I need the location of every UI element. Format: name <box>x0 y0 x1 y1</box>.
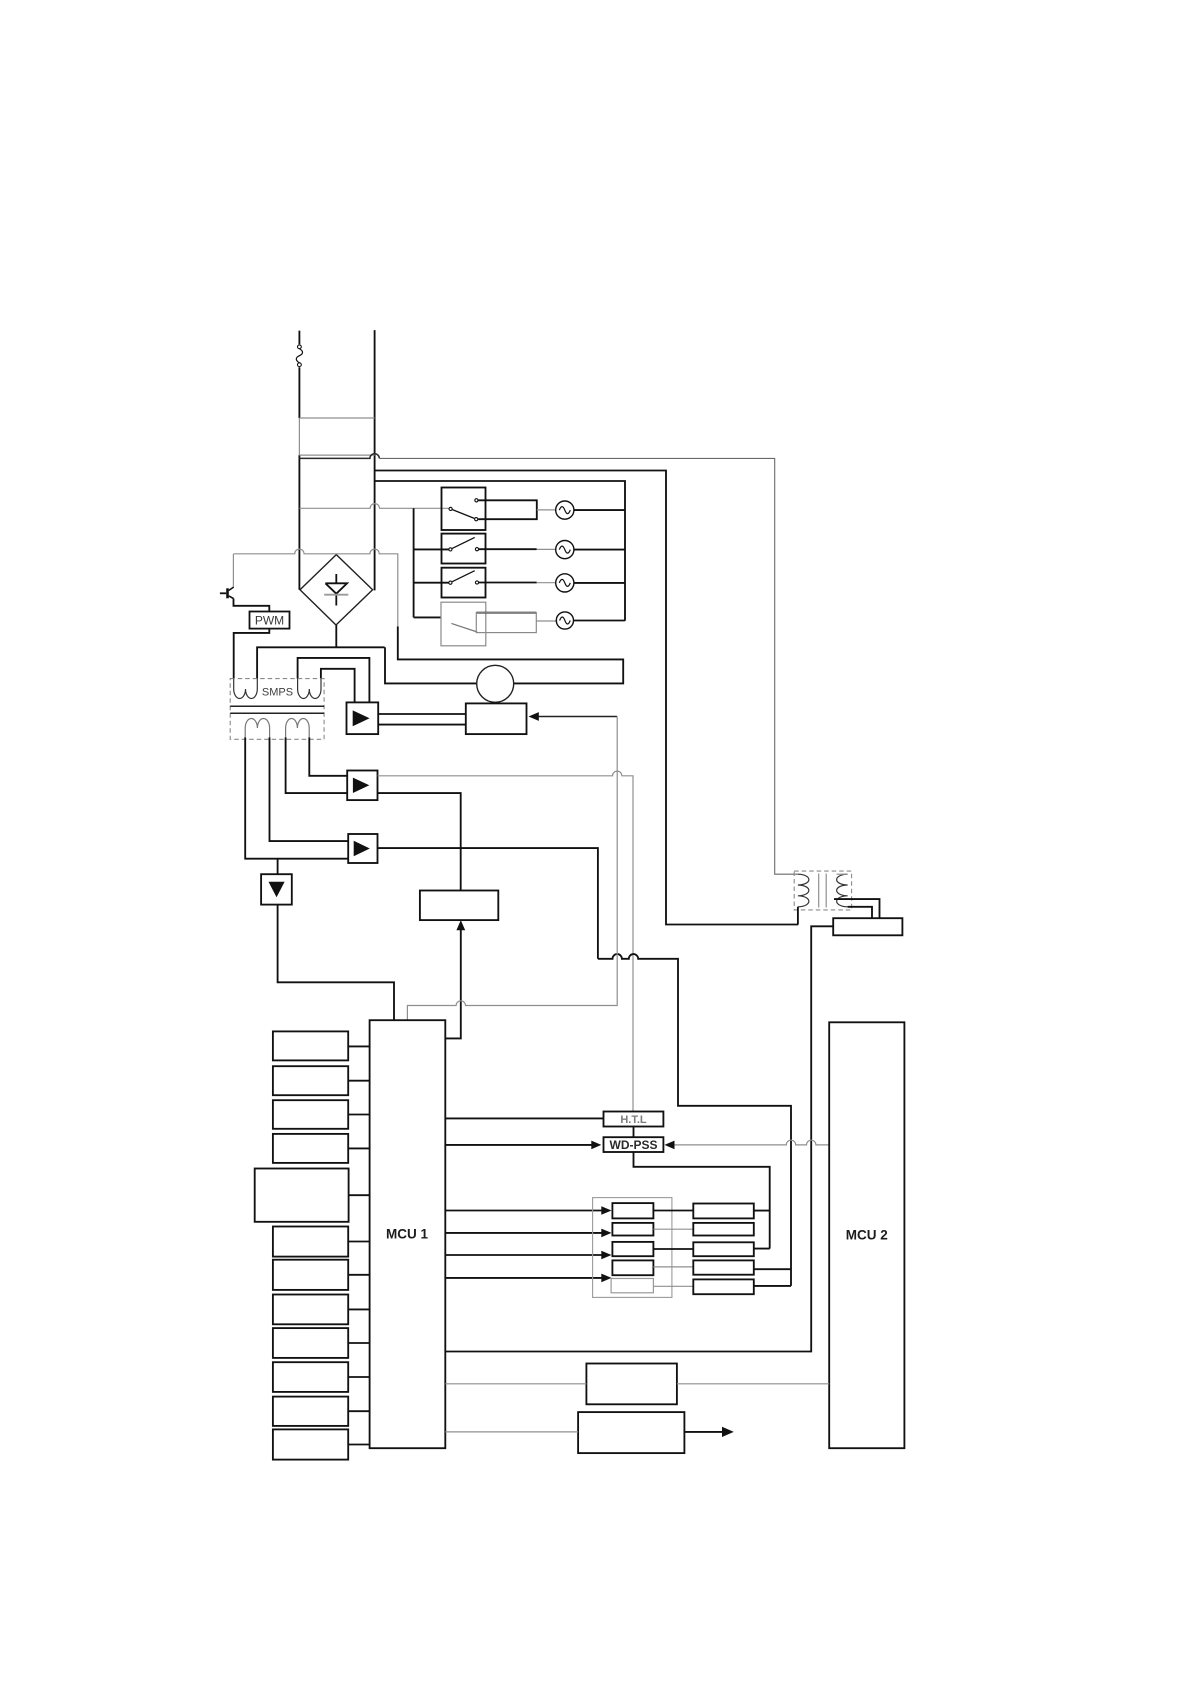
wire: tap into regulator <box>277 859 279 875</box>
wire+arrow: MCU1 output 4 <box>445 1274 611 1283</box>
wire: secondary 2b to U2 upper input <box>309 737 347 775</box>
comm box A <box>586 1364 677 1405</box>
amplifier U1 <box>347 702 379 734</box>
svg-text:MCU 1: MCU 1 <box>386 1227 428 1242</box>
driver box D4 <box>693 1260 754 1274</box>
wire: MCU1 to comm box A to MCU2 (gray) <box>445 1383 829 1385</box>
peripheral box P4 <box>273 1134 370 1163</box>
driver box D3 <box>693 1242 754 1256</box>
peripheral box P2 <box>273 1066 370 1095</box>
EMI filter block (gray) <box>299 418 374 455</box>
relay K1 common pin <box>449 507 452 510</box>
svg-text:WD-PSS: WD-PSS <box>610 1138 658 1152</box>
comparator box <box>420 891 498 921</box>
svg-text:SMPS: SMPS <box>262 687 293 699</box>
svg-text:PWM: PWM <box>255 613 284 627</box>
wire+arrow: MCU2 to WD-PSS (gray, hops) <box>665 1140 830 1149</box>
wire: relay common feed (gray, hops over N) <box>299 504 448 509</box>
relay K2 box <box>442 534 486 564</box>
peripheral box P7 <box>273 1260 370 1290</box>
opto group outline (gray) <box>593 1198 672 1298</box>
opto box O2 <box>612 1223 653 1236</box>
peripheral box P8 <box>273 1295 370 1325</box>
wire+arrow: MCU1 output 2 <box>445 1229 611 1238</box>
wire: O1 to D1 <box>653 1210 693 1212</box>
arrow into driver box (from feedback line) <box>529 712 618 721</box>
T1 primary winding <box>798 874 809 907</box>
SMPS primary winding left <box>234 679 258 699</box>
WD-PSS block <box>604 1137 664 1152</box>
driver box D5 <box>693 1279 754 1294</box>
peripheral box P5 (large) <box>255 1169 370 1222</box>
relay K1 NO pin <box>475 499 478 502</box>
SMPS transformer (dashed box) <box>230 679 324 740</box>
motor M <box>477 665 514 702</box>
wire: PWM to SMPS primary <box>234 629 270 679</box>
K4 load box (gray) <box>476 613 536 633</box>
peripheral box P12 <box>273 1429 370 1459</box>
peripheral box P10 <box>273 1362 370 1392</box>
wire+arrow: MCU1 to comparator box bottom <box>445 920 465 1038</box>
wire: AC line N (right vertical) <box>374 330 376 590</box>
wire: line to standby transformer T1 (hops over N) <box>299 454 379 459</box>
wire: MCU1 to comm box B (gray) <box>445 1431 578 1433</box>
wire: K2 to load <box>479 548 537 550</box>
MCU 2 <box>829 1022 904 1448</box>
SMPS secondary winding right <box>286 719 310 738</box>
regulator (down triangle) <box>261 874 292 904</box>
T1 secondary winding <box>837 874 848 907</box>
wire: O5 to D5 (gray) <box>653 1285 693 1287</box>
T1 core <box>819 874 827 908</box>
relay K2 armature <box>452 537 475 548</box>
wire+arrow: comm box B output <box>684 1427 733 1437</box>
relay K3 armature <box>452 571 475 582</box>
diode D1 inside bridge <box>324 574 348 606</box>
opto box O4 <box>612 1260 653 1275</box>
wire: relay select bus <box>414 508 449 617</box>
SMPS core <box>230 706 324 713</box>
wire: gray feedback MCU1 top to driver arrow <box>407 717 617 1021</box>
wire: U2 output to H.T.L (gray, hops) <box>378 771 634 1111</box>
relay K1 box <box>442 488 486 531</box>
wire: MCU1 to H.T.L <box>445 1117 603 1119</box>
peripheral box P3 <box>273 1100 370 1129</box>
opto box O1 <box>612 1203 653 1218</box>
comm box B <box>578 1412 684 1453</box>
relay K1 NC pin <box>475 518 478 521</box>
AC load symbol 2 <box>556 541 574 559</box>
driver box D1 <box>693 1204 754 1219</box>
wire: Q1 emitter to PWM <box>234 599 270 612</box>
wire: bridge DC- rail <box>257 625 385 679</box>
wire: U2 output to comparator box <box>378 793 461 890</box>
opto box O3 <box>612 1242 653 1256</box>
peripheral box P11 <box>273 1397 370 1426</box>
relay K2 pins <box>449 548 479 551</box>
wire: supervisor box to MCU1 (long) <box>445 926 833 1351</box>
wire: aux rail to U1 (inner) <box>321 669 355 703</box>
relay K1 armature <box>452 510 474 519</box>
K4 load box top <box>476 612 536 614</box>
wire: K3 to load <box>479 582 537 584</box>
peripheral box P1 <box>273 1031 370 1060</box>
wire: chopper loop with motor <box>385 627 623 684</box>
wire: load4 to bus <box>574 620 626 622</box>
standby transformer T1 (dashed box) <box>794 871 851 910</box>
relay K4 box (gray) <box>441 602 486 646</box>
relay K3 pins <box>449 581 479 584</box>
amplifier U3 <box>348 834 377 863</box>
relay K3 box <box>442 568 486 598</box>
wire: K2 gray link <box>537 548 556 550</box>
wire: U3 output to grid drivers (hops two verticals) <box>378 848 792 1286</box>
wire: O4 to D4 (gray) <box>653 1266 693 1268</box>
wire: secondary 1a to U3 lower input <box>245 737 348 858</box>
wire: T1 secondary top stub <box>837 873 848 875</box>
wire: K4 gray link <box>536 620 557 622</box>
wire: WD-PSS bottom to driver column <box>634 1152 770 1249</box>
wire: O3 to D3 <box>653 1248 693 1250</box>
MCU 1 <box>370 1020 446 1448</box>
wire: secondary 1b to U3 upper input <box>270 737 349 841</box>
wire+arrow: MCU1 output 1 <box>445 1206 611 1215</box>
wire: aux rail to U1 (outer) <box>298 658 370 703</box>
transistor Q1 <box>220 554 234 599</box>
wire: K1 load to source (gray) <box>537 509 556 511</box>
peripheral box P9 <box>273 1328 370 1358</box>
wire: K1 contacts to load <box>478 500 537 519</box>
amplifier U2 <box>347 771 377 801</box>
driver box U1 load <box>466 703 527 734</box>
AC load symbol 1 <box>556 501 574 519</box>
AC load symbol 3 <box>556 574 574 592</box>
wire: regulator output to MCU1 <box>278 905 394 1021</box>
wire+arrow: MCU1 output 3 <box>445 1251 611 1260</box>
SMPS secondary winding left <box>245 719 269 738</box>
wire+arrow: MCU1 to WD-PSS <box>445 1141 601 1150</box>
wire: H.T.L to WD-PSS <box>633 1127 635 1138</box>
wire: U1 outputs to driver box <box>378 714 466 725</box>
AC load symbol 4 <box>556 612 573 629</box>
driver box D2 <box>693 1223 754 1236</box>
svg-text:H.T.L: H.T.L <box>620 1114 647 1126</box>
peripheral box P6 <box>273 1227 370 1257</box>
bridge rectifier BR1 (diamond) <box>300 555 373 625</box>
wire: L3 relay supply + bus <box>375 481 625 621</box>
svg-text:MCU 2: MCU 2 <box>846 1228 888 1243</box>
wire: O2 to D2 (gray) <box>653 1228 693 1230</box>
wire: AC line L (left vertical with fuse) <box>298 331 300 590</box>
wire: T1 secondary to supervisor box (upper) <box>834 899 880 918</box>
wire: driver stubs t4 t5 <box>754 1269 791 1286</box>
wire: secondary 2a to U2 lower input <box>286 737 348 793</box>
PWM block <box>250 612 290 629</box>
H.T.L block <box>604 1112 664 1127</box>
wire: N to T1 primary return <box>375 471 799 925</box>
wire: T1 primary bottom leg <box>797 907 799 925</box>
SMPS primary winding right <box>298 679 321 699</box>
wire: T1 secondary to supervisor box (lower) <box>848 907 872 918</box>
wire: load1 to bus <box>574 509 625 511</box>
wire: DC+ from bridge to chopper loop (gray, hops L and N) <box>234 549 398 626</box>
wire: load2 to bus <box>574 549 625 551</box>
relay K4 armature (gray) <box>451 623 477 632</box>
supervisor box <box>833 918 902 935</box>
fuse F1 <box>296 345 302 367</box>
wire: load3 to bus <box>574 582 625 584</box>
opto box O5 (gray) <box>611 1279 653 1293</box>
wire: K3 gray link <box>537 582 556 584</box>
